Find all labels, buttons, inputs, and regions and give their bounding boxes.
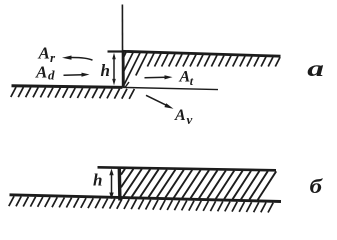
svg-text:h: h bbox=[93, 171, 102, 190]
svg-text:A: A bbox=[174, 107, 186, 124]
svg-text:A: A bbox=[38, 44, 50, 63]
svg-text:б: б bbox=[310, 176, 324, 198]
svg-text:a: a bbox=[307, 56, 324, 82]
svg-text:d: d bbox=[48, 68, 55, 83]
svg-text:A: A bbox=[35, 63, 47, 82]
svg-text:h: h bbox=[101, 61, 110, 80]
svg-text:v: v bbox=[187, 112, 193, 127]
svg-text:A: A bbox=[179, 69, 191, 86]
